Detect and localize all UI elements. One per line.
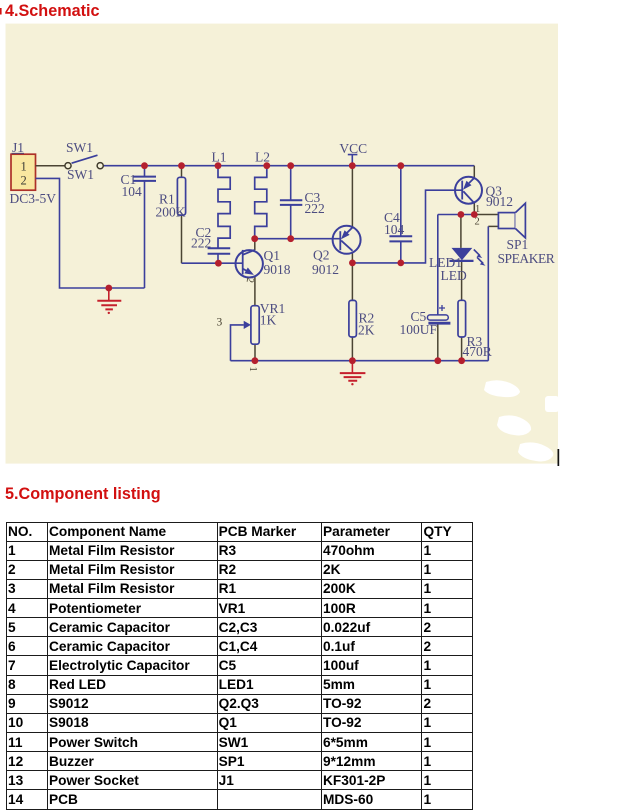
- svg-text:104: 104: [122, 184, 143, 199]
- wire C1 bottom stem: [144, 181, 146, 288]
- speaker SP1: [498, 203, 525, 238]
- wire C3 bottom stem: [290, 205, 292, 239]
- wire J1 pin1 to SW1: [36, 165, 65, 167]
- wire Q2 emitter stub: [351, 252, 353, 263]
- wire output node rail: [438, 214, 475, 216]
- power connector J1: [11, 154, 36, 190]
- svg-text:200K: 200K: [156, 204, 186, 219]
- ground (left, power return): [97, 288, 121, 314]
- svg-text:3: 3: [217, 317, 223, 329]
- potentiometer VR1: [244, 306, 259, 345]
- junction dot node A (C2 bottom): [215, 260, 222, 267]
- wire Q3 collector stub: [473, 166, 475, 179]
- junction dot L1 top: [215, 162, 222, 169]
- wire to speaker pin 1: [474, 214, 498, 216]
- LED LED1: [449, 248, 485, 266]
- electrolytic capacitor C5: [427, 305, 450, 323]
- svg-text:SW1: SW1: [67, 167, 94, 182]
- junction dot R2 bottom / ground right: [349, 357, 356, 364]
- wire C1 top stub: [144, 166, 146, 177]
- svg-text:9012: 9012: [486, 194, 513, 209]
- wire Q3 emitter stub: [473, 203, 475, 215]
- wire R1 top stub: [181, 166, 183, 178]
- wire C5 top drop: [437, 215, 439, 315]
- wire R1 bottom pin: [181, 215, 183, 263]
- junction dot ground left: [105, 285, 112, 292]
- wire speaker pin 2 down to ground rail: [487, 226, 489, 360]
- svg-text:SP1: SP1: [507, 237, 529, 252]
- svg-text:DC3-5V: DC3-5V: [10, 191, 57, 206]
- inductor L1: [218, 166, 230, 249]
- svg-text:9018: 9018: [264, 262, 291, 277]
- scan artifact black tick right edge: [558, 449, 560, 466]
- resistor R3: [458, 300, 466, 337]
- junction dot LED anode: [458, 211, 465, 218]
- svg-text:100UF: 100UF: [400, 322, 438, 337]
- capacitor C3: [280, 200, 302, 205]
- scan artifact white blobs: [484, 380, 559, 461]
- wire C3 top stem: [290, 166, 292, 200]
- svg-text:9012: 9012: [312, 262, 339, 277]
- wire C4 top stem: [400, 166, 402, 236]
- wire J1 pin2 to ground loop: [36, 178, 145, 288]
- svg-text:104: 104: [384, 222, 405, 237]
- capacitor C2: [208, 248, 231, 253]
- switch SW1: [65, 155, 103, 169]
- wire Q2 collector to VCC rail: [351, 166, 353, 228]
- junction dot C4 bottom: [397, 260, 404, 267]
- section title 4.Schematic: [5, 2, 99, 21]
- inductor L2: [255, 166, 267, 239]
- capacitor C4: [389, 236, 412, 241]
- wire C5 bottom stub: [437, 324, 439, 360]
- junction dot VCC stem: [349, 162, 356, 169]
- junction dot VR1 bottom: [252, 357, 259, 364]
- svg-text:J1: J1: [12, 140, 24, 155]
- wire LED anode stem: [460, 215, 462, 248]
- wire C2 bottom stub: [217, 254, 219, 264]
- section title 5.Component listing: [5, 485, 161, 504]
- junction dot C1 top: [141, 162, 148, 169]
- svg-text:222: 222: [191, 236, 211, 251]
- svg-text:SPEAKER: SPEAKER: [498, 251, 555, 266]
- svg-text:VCC: VCC: [339, 141, 367, 156]
- junction dot R1 top: [178, 162, 185, 169]
- ground (right, emitter return): [340, 361, 366, 386]
- wire top VCC rail: [103, 165, 474, 167]
- svg-text:470R: 470R: [463, 344, 492, 359]
- wire R2 bottom stub: [351, 337, 353, 361]
- svg-text:2: 2: [21, 174, 27, 188]
- svg-text:L2: L2: [255, 150, 270, 165]
- wire Q1 collector stub: [254, 239, 256, 251]
- svg-text:1K: 1K: [260, 312, 277, 327]
- svg-text:1: 1: [247, 367, 258, 372]
- resistor R1: [177, 177, 185, 215]
- transistor Q1: [236, 250, 263, 278]
- wire VR1 bottom stub: [254, 344, 256, 361]
- svg-text:Q1: Q1: [264, 248, 281, 263]
- svg-text:1: 1: [21, 160, 27, 174]
- scan artifact red mark top left: [0, 8, 2, 15]
- junction dot Q2 emitter: [349, 260, 356, 267]
- svg-text:222: 222: [305, 201, 325, 216]
- wire speaker pin 2 stub: [488, 225, 498, 227]
- svg-text:2: 2: [475, 217, 480, 228]
- transistor Q3: [455, 177, 482, 204]
- schematic background panel: [6, 24, 559, 464]
- transistor Q2: [333, 226, 361, 254]
- capacitor C1: [133, 177, 156, 181]
- junction dot Q3 emitter: [471, 211, 478, 218]
- junction dot C4 top: [397, 162, 404, 169]
- resistor R2: [349, 300, 357, 337]
- VCC power net: [348, 155, 358, 166]
- svg-text:SW1: SW1: [66, 140, 93, 155]
- svg-text:2K: 2K: [358, 322, 375, 337]
- wire VR1 wiper loop: [231, 325, 244, 361]
- junction dot L2 bottom / Q1 collector: [251, 235, 258, 242]
- wire LED cathode to R3: [461, 261, 463, 300]
- junction dot R3 bottom: [458, 357, 465, 364]
- wire R3 bottom stub: [461, 337, 463, 361]
- wire node B (Q2/C4 to Q3 base): [352, 190, 462, 263]
- svg-text:L1: L1: [212, 150, 227, 165]
- svg-text:LED: LED: [441, 268, 467, 283]
- wire R2 top pin: [351, 263, 353, 301]
- junction dot L2 top: [263, 162, 270, 169]
- wire tank rail (L2/C3 to Q2 base): [255, 238, 340, 240]
- J1 designator underline: [12, 152, 25, 154]
- junction dot C5 bottom: [434, 357, 441, 364]
- svg-text:Q2: Q2: [313, 247, 330, 262]
- junction dot C3 top: [287, 162, 294, 169]
- wire ground bottom rail: [231, 360, 489, 362]
- wire C4 bottom stem: [400, 242, 402, 263]
- wire Q1 emitter to VR1: [254, 276, 256, 306]
- junction dot C3 bottom: [287, 235, 294, 242]
- component listing table: [6, 522, 473, 810]
- wire node A horizontal (R1/C2 to Q1 base): [182, 262, 243, 264]
